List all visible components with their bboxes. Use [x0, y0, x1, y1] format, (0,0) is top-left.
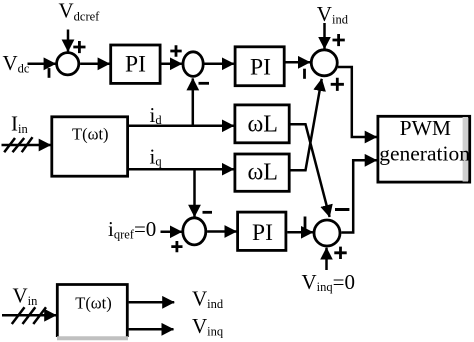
minus tick at S3 left input [303, 69, 306, 79]
gray bottom edge of T2 [57, 336, 128, 340]
svg-text:generation: generation [379, 141, 470, 165]
minus sign at S4 top input [335, 208, 349, 211]
wire S2 to PI2 [205, 63, 234, 66]
svg-text:T(ωt): T(ωt) [72, 124, 109, 143]
wire iq branch down to S5 [193, 169, 196, 217]
three-phase slashes on Iin wire [4, 137, 32, 152]
svg-text:ωL: ωL [247, 112, 277, 138]
plus sign at S5 bottom-left input [171, 241, 182, 252]
wire Vind down into summer S3 [323, 23, 326, 49]
block wL1 [235, 105, 289, 143]
minus tick at S4 left input [304, 217, 307, 230]
svg-text:ωL: ωL [247, 160, 277, 186]
summer S2 [183, 52, 203, 77]
plus sign at S4 bottom input [334, 247, 346, 259]
block PI1 [111, 45, 160, 83]
block T2 transformation [57, 285, 127, 338]
wire T2 output Vind [129, 301, 175, 304]
block PI3 [238, 212, 286, 250]
plus sign at S3 top input [333, 34, 345, 46]
minus tick at S1 left input [48, 68, 51, 78]
summer S4 [314, 220, 340, 246]
wire Vdcref down into summer S1 [67, 30, 70, 52]
summer S3 [311, 50, 337, 76]
plus sign at S3 bottom input [331, 78, 344, 91]
block wL2 [235, 154, 289, 191]
block PI2 [235, 47, 284, 86]
wire Iin into T1 [2, 144, 51, 147]
plus sign at S2 left input [170, 45, 181, 56]
wire PI1 to summer S2 [161, 63, 182, 66]
wire id branch up to S2 [192, 78, 195, 125]
wire Vdc into summer S1 [28, 63, 56, 66]
svg-text:PI: PI [252, 220, 273, 246]
summer S5 [183, 218, 206, 245]
svg-text:PI: PI [250, 54, 271, 80]
svg-text:PWM: PWM [400, 116, 451, 140]
block T1 transformation [52, 117, 128, 176]
wire wL2 diagonal up to S3 [291, 79, 322, 170]
wire iqref into S5 [161, 231, 182, 234]
wire PI2 to summer S3 [286, 61, 311, 64]
block PWM generation [378, 116, 470, 182]
wire Vinq up into S4 [325, 248, 328, 270]
wire id from T1 to wL1 [129, 125, 234, 128]
minus sign at S2 bottom input [199, 82, 210, 85]
three-phase slashes on Vin wire [12, 307, 46, 324]
summer S1 [57, 53, 79, 75]
svg-text:T(ωt): T(ωt) [75, 294, 112, 313]
wire Vin into T2 [2, 314, 56, 317]
wire T2 output Vinq [129, 328, 174, 331]
svg-text:PI: PI [125, 52, 146, 78]
gray scan strip inside PWM right edge [463, 117, 468, 182]
wire S3 to PWM input 1 [338, 67, 377, 137]
plus sign at S1 top input [73, 41, 85, 53]
wire wL1 diagonal down to S4 [291, 124, 330, 217]
wire S4 to PWM input 2 [341, 160, 376, 232]
wire S5 to PI3 [207, 230, 236, 233]
wire PI3 to summer S4 [287, 231, 313, 234]
wire iq from T1 to wL2 [129, 168, 234, 171]
wire S1 to PI1 [80, 63, 110, 66]
minus sign at S5 top input [203, 211, 213, 214]
